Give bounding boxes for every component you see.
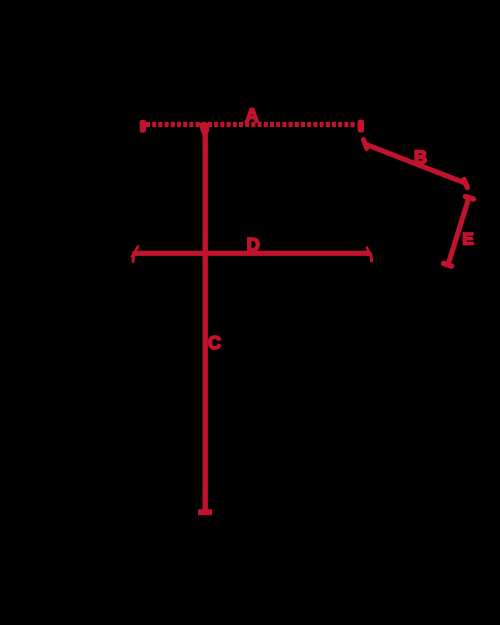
dimension line A (dashed horizontal) <box>146 122 356 127</box>
dimension line B (diagonal) <box>365 144 465 183</box>
E top end cap <box>466 197 474 200</box>
C bottom end cap <box>198 509 212 515</box>
B right end cap <box>464 180 467 188</box>
svg-text:D: D <box>247 235 260 255</box>
C top junction blob <box>199 123 209 139</box>
B left end cap <box>364 140 367 149</box>
D right arrow tail <box>369 254 373 262</box>
dimension line C (vertical) <box>203 127 208 512</box>
D left arrow tick <box>132 247 138 257</box>
E bottom end cap <box>444 264 452 267</box>
A right end cap <box>358 120 364 133</box>
dimension line E (diagonal) <box>448 199 469 266</box>
svg-text:C: C <box>208 333 221 353</box>
dimension line D (horizontal) <box>134 251 370 256</box>
A left end cap <box>140 120 146 133</box>
svg-text:A: A <box>245 106 259 127</box>
D left arrow tail <box>132 253 136 262</box>
svg-text:E: E <box>462 230 473 249</box>
D right arrow tick <box>367 248 372 258</box>
svg-text:B: B <box>414 148 427 168</box>
